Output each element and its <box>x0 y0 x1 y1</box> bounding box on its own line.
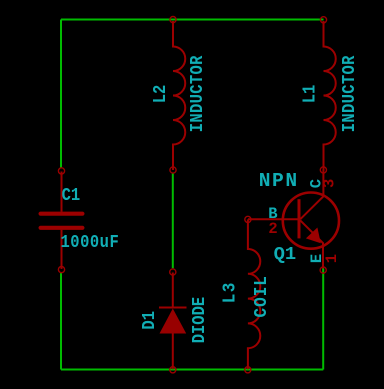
svg-text:COIL: COIL <box>252 275 272 317</box>
svg-text:INDUCTOR: INDUCTOR <box>340 55 361 132</box>
svg-text:DIODE: DIODE <box>190 297 211 343</box>
svg-text:3: 3 <box>321 179 339 188</box>
svg-text:1: 1 <box>323 254 341 263</box>
svg-text:L3: L3 <box>220 281 240 303</box>
svg-text:D1: D1 <box>140 311 161 330</box>
svg-text:L1: L1 <box>300 85 321 104</box>
svg-text:1000uF: 1000uF <box>61 233 120 254</box>
svg-text:C1: C1 <box>62 186 81 207</box>
svg-text:Q1: Q1 <box>274 243 297 265</box>
svg-text:2: 2 <box>268 220 277 238</box>
svg-text:INDUCTOR: INDUCTOR <box>188 55 209 132</box>
svg-text:L2: L2 <box>151 85 172 104</box>
svg-text:NPN: NPN <box>259 170 299 192</box>
